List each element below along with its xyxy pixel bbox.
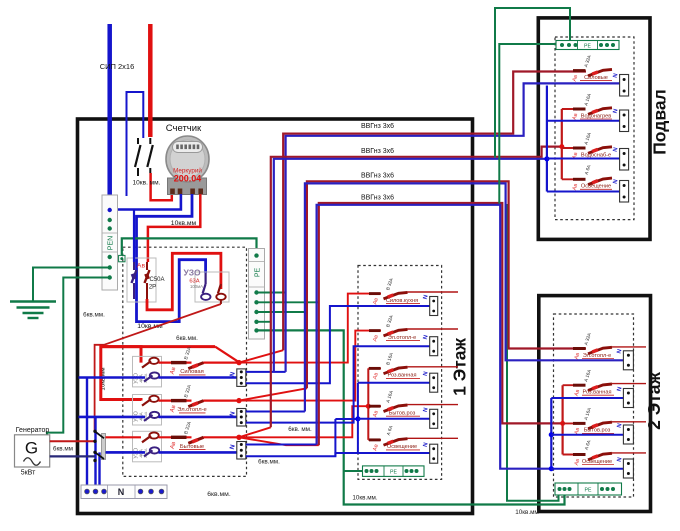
basement breaker row Освещение <box>562 178 586 180</box>
svg-text:Эл.отопл-е: Эл.отопл-е <box>388 335 417 341</box>
wire breaker out to RCD in <box>147 253 221 309</box>
2nd floor N box row 2 <box>623 389 633 408</box>
N terminal box group 1 <box>237 369 246 387</box>
svg-text:5кВт: 5кВт <box>21 470 36 477</box>
PE terminal strip <box>249 249 265 340</box>
svg-text:ВВГнз 3х6: ВВГнз 3х6 <box>361 173 394 180</box>
2nd floor panel box <box>539 296 651 512</box>
meter T3 wire to RCD <box>137 194 206 322</box>
2nd floor breaker row Эл.отопл-е <box>573 347 586 350</box>
N fan wires group3 <box>246 444 317 446</box>
svg-text:200.04: 200.04 <box>174 174 202 184</box>
green wire to basement PE 2 <box>499 44 562 204</box>
generator blue output <box>50 455 95 457</box>
generator red output <box>50 440 95 442</box>
main inner dashed box <box>123 247 247 476</box>
1st floor red bus <box>367 368 369 440</box>
svg-text:PE: PE <box>390 470 397 476</box>
breaker Av C50A 2P <box>127 258 156 302</box>
green wire to 2nd floor PE <box>507 204 559 501</box>
cable 3 blue to 2nd floor <box>305 183 624 411</box>
svg-text:2 Этаж: 2 Этаж <box>644 372 664 430</box>
svg-text:Генератор: Генератор <box>16 427 50 434</box>
svg-text:Бытов.роз: Бытов.роз <box>584 428 611 434</box>
svg-text:Подвал: Подвал <box>650 89 670 155</box>
cable 2 blue to basement <box>274 159 547 372</box>
svg-text:PE: PE <box>585 488 592 494</box>
basement N box row 2 <box>620 110 629 132</box>
2nd floor N box row 1 <box>623 351 633 370</box>
svg-text:УЗО: УЗО <box>183 268 201 278</box>
meter T2 wire to PEN <box>110 194 181 210</box>
2nd floor dashed box <box>554 314 634 497</box>
svg-text:Роз.ванная: Роз.ванная <box>583 390 612 396</box>
cable 2 red to basement <box>271 147 562 428</box>
basement N box row 1 <box>620 75 629 97</box>
2nd floor red bus <box>561 385 563 454</box>
N bus verticals <box>86 378 88 492</box>
basement panel box <box>538 18 650 240</box>
transfer switch red output <box>106 436 142 438</box>
ground wire from PEN <box>33 268 110 302</box>
ground symbol <box>10 300 56 302</box>
1st floor breaker row Силов.кухня <box>369 292 381 295</box>
N terminal box group 3 <box>237 442 246 460</box>
svg-text:Роз.ванная: Роз.ванная <box>388 373 417 379</box>
cable 1 blue to basement <box>286 83 620 372</box>
N fan wires group2 <box>246 411 305 413</box>
svg-text:Счетчик: Счетчик <box>166 123 202 134</box>
basement N box row 4 <box>620 181 629 203</box>
2nd floor breaker row Роз.ванная <box>563 384 586 386</box>
svg-text:Силовая: Силовая <box>180 369 203 375</box>
svg-text:6кв.мм.: 6кв.мм. <box>258 459 280 466</box>
junction dot group3 <box>236 435 241 440</box>
PEN terminal strip <box>102 195 118 290</box>
svg-text:6кв.мм.: 6кв.мм. <box>207 491 231 498</box>
N terminal box group 2 <box>237 409 246 427</box>
junction dot group1 <box>236 360 241 365</box>
meter T4 wire to breaker <box>148 194 200 262</box>
1st floor breaker row Освещение <box>368 439 381 441</box>
RCD group УЗО 40А row Эл.отопл-е <box>133 395 162 426</box>
green connector box <box>119 255 125 261</box>
thick red feed to groups 1,2 <box>101 347 141 401</box>
N bus strip <box>81 485 167 499</box>
svg-text:10кв.мм: 10кв.мм <box>171 220 197 227</box>
svg-text:PEN: PEN <box>108 236 115 250</box>
svg-text:6кв.мм: 6кв.мм <box>53 446 73 453</box>
2nd floor N box row 4 <box>623 459 633 478</box>
green wire to 1st floor PE <box>257 330 565 504</box>
2nd floor N box row 3 <box>623 425 633 444</box>
svg-text:PE: PE <box>584 44 591 50</box>
1st floor N box row 1 <box>430 297 438 316</box>
RCD group УЗО 40А row Силовая <box>133 356 162 387</box>
wire switch to meter T1 <box>151 173 172 200</box>
RCD group УЗО 40А row Бытовые <box>133 431 162 462</box>
fan wires group2 <box>239 388 307 400</box>
basement red bus <box>561 109 563 179</box>
svg-text:10кв.мм: 10кв.мм <box>515 509 539 516</box>
RCD output diagonal to transfer feed <box>220 300 222 304</box>
svg-text:Эл.отопл-е: Эл.отопл-е <box>177 407 207 413</box>
svg-text:6кв.мм.: 6кв.мм. <box>83 312 105 319</box>
fan wires group1 <box>239 350 283 362</box>
basement dashed box <box>555 37 634 220</box>
cable 4 red to 2nd floor <box>319 203 563 445</box>
svg-text:Силов.кухня: Силов.кухня <box>386 298 418 304</box>
svg-text:G: G <box>25 439 38 458</box>
2nd floor blue bus <box>550 398 552 469</box>
2nd floor breaker row Бытов.роз <box>563 422 586 424</box>
basement breaker row Водонагрев <box>562 108 586 110</box>
SIP service drop blue wire <box>107 24 112 196</box>
1st floor N box row 3 <box>430 373 438 392</box>
2nd floor breaker row Освещение <box>563 454 586 456</box>
svg-text:ВВГнз 3х6: ВВГнз 3х6 <box>361 148 394 155</box>
svg-text:Ав: Ав <box>137 263 146 270</box>
basement breaker row Водоснаб-е <box>562 147 586 149</box>
transfer switch <box>102 434 106 460</box>
svg-text:PE: PE <box>255 268 262 278</box>
1st floor N box row 4 <box>430 409 438 428</box>
svg-text:N: N <box>118 487 125 497</box>
svg-text:ВВГнз 3х6: ВВГнз 3х6 <box>361 195 394 202</box>
svg-text:С50А: С50А <box>149 277 164 283</box>
svg-text:Водоснаб-е: Водоснаб-е <box>581 152 611 158</box>
svg-text:Освещение: Освещение <box>581 184 611 190</box>
fan wires group3 <box>239 427 271 437</box>
svg-text:6кв. мм.: 6кв. мм. <box>288 426 312 433</box>
1st floor blue bus <box>357 383 359 454</box>
svg-text:6кв.мм.: 6кв.мм. <box>176 335 198 342</box>
cable 1 red to basement <box>283 72 586 351</box>
svg-text:Водонагрев: Водонагрев <box>581 113 612 119</box>
svg-text:ВВГнз 3х6: ВВГнз 3х6 <box>361 123 394 130</box>
svg-text:100мА: 100мА <box>190 284 203 289</box>
basement N box row 3 <box>620 149 629 171</box>
1st floor breaker row Эл.отопл-е <box>369 329 381 332</box>
N fan wires group1 <box>246 371 286 373</box>
basement blue bus <box>546 86 548 192</box>
svg-text:10кв.мм.: 10кв.мм. <box>352 495 378 502</box>
main panel box <box>78 119 473 514</box>
2P disconnect switch <box>137 138 139 144</box>
svg-text:Бытов.роз: Бытов.роз <box>389 411 416 417</box>
svg-text:Эл.отопл-е: Эл.отопл-е <box>583 353 612 359</box>
basement PE strip <box>556 41 619 50</box>
1st floor breaker row Роз.ванная <box>368 367 381 369</box>
PE jumpers to cable greens <box>257 292 286 294</box>
cable 4 blue to 2nd floor <box>317 205 552 469</box>
1st floor dashed box <box>358 266 442 480</box>
generator box <box>15 435 50 467</box>
svg-text:Освещение: Освещение <box>387 444 417 450</box>
1st floor PE strip <box>363 466 425 477</box>
2nd floor PE strip <box>555 483 622 495</box>
svg-text:10кв. мм.: 10кв. мм. <box>133 180 161 187</box>
cable 3 red to 2nd floor <box>307 181 586 388</box>
1st floor N box row 5 <box>430 444 438 463</box>
meter Mercury 200.04 <box>168 178 207 195</box>
svg-text:2Р: 2Р <box>149 285 156 291</box>
RCD UZO 63A <box>195 272 229 302</box>
svg-text:СИП 2х16: СИП 2х16 <box>100 62 135 71</box>
1st floor breaker row Бытов.роз <box>368 405 381 407</box>
svg-text:Силовые: Силовые <box>584 75 608 81</box>
transfer switch blue output <box>106 451 145 453</box>
green wire PEN to PE strip <box>122 238 257 255</box>
svg-text:Бытовые: Бытовые <box>180 444 204 450</box>
basement breaker row Силовые <box>573 69 586 72</box>
main red drop to transfer switch <box>95 345 104 431</box>
svg-text:Освещение: Освещение <box>582 459 612 465</box>
thick red feed to group1 junction <box>101 345 215 348</box>
green wire PEN to generator <box>47 278 110 436</box>
green wire to basement PE 1 <box>495 8 570 158</box>
1st floor N box row 2 <box>430 337 438 356</box>
thin blue loop wire <box>127 92 144 196</box>
SIP service drop red wire <box>148 24 153 137</box>
junction dot group2 <box>236 398 241 403</box>
